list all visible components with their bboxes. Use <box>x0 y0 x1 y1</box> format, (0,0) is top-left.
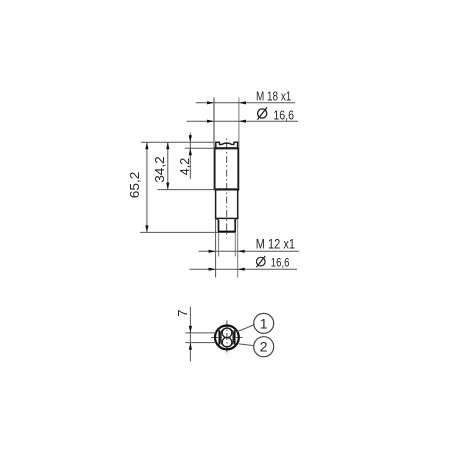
dim line M12 <box>199 250 300 252</box>
right flat chord <box>234 330 236 344</box>
thread chamfer right <box>234 219 237 221</box>
extension line y232.3 (65,2) <box>140 231 218 233</box>
arrow dia bottom left <box>209 268 216 271</box>
dim line 34,2 <box>167 142 169 189</box>
thread bottom thick line <box>218 231 236 233</box>
centerline horizontal (end view) <box>211 336 243 338</box>
svg-text:2: 2 <box>260 339 268 355</box>
dim line 65,2 <box>146 142 148 232</box>
upper body M18 section <box>215 148 239 189</box>
thread M12 section <box>219 220 236 232</box>
arrow M12 right <box>238 250 245 253</box>
dim line 7 <box>189 307 191 362</box>
centerline vertical (end view) <box>226 321 228 356</box>
small circle 2 (bottom) <box>222 337 232 347</box>
svg-text:16,6: 16,6 <box>273 107 294 122</box>
svg-text:M 18 x1: M 18 x1 <box>256 89 291 104</box>
outer circle (thread OD) <box>215 326 239 350</box>
arrow M12 left <box>209 250 216 253</box>
arrow M18 right <box>239 101 246 104</box>
arrow dia bottom right <box>238 268 245 271</box>
extension line top-right <box>238 98 240 149</box>
extension line 7 top <box>185 332 216 334</box>
cap flange thick line <box>214 147 238 149</box>
svg-text:65,2: 65,2 <box>128 172 142 199</box>
diameter symbol bottom <box>257 257 266 266</box>
svg-text:1: 1 <box>260 315 268 331</box>
extension lines bottom outer <box>215 219 217 278</box>
middle section <box>216 189 238 218</box>
svg-text:7: 7 <box>176 309 190 317</box>
extension lines bottom inner (thread) <box>218 233 220 257</box>
sensing cap top profile <box>216 142 238 148</box>
leader line 1 <box>237 325 255 332</box>
extension line y142 left <box>141 141 215 143</box>
extension line y189.5 (34,2) <box>158 189 216 191</box>
step line at 189.4 <box>214 188 239 190</box>
leader line 2 <box>239 344 254 346</box>
arrow dia top right <box>239 120 246 123</box>
callout circle 2 <box>254 337 274 357</box>
svg-text:M 12 x1: M 12 x1 <box>256 237 295 252</box>
dim line dia16,6 bottom <box>190 268 298 270</box>
diameter symbol top <box>258 109 267 118</box>
callout circle 1 <box>254 313 274 333</box>
dim line 4,2 <box>189 133 191 180</box>
dim line dia16,6 top <box>187 120 299 122</box>
arrow dia top left <box>207 120 214 123</box>
inner stadium (slot) <box>221 328 233 347</box>
arrow M18 left <box>207 101 214 104</box>
dim line M18 <box>196 102 295 104</box>
extension line 7 bottom <box>185 342 216 344</box>
extension line y148 (4,2) <box>185 147 215 149</box>
centerline vertical (side view) <box>226 139 228 238</box>
small circle 1 (top) <box>222 328 232 338</box>
svg-text:34,2: 34,2 <box>153 156 167 183</box>
svg-text:16,6: 16,6 <box>271 256 290 270</box>
extension line top-left <box>213 98 215 149</box>
svg-text:4,2: 4,2 <box>178 158 192 176</box>
left flat chord <box>218 330 220 344</box>
thread chamfer left <box>216 219 219 221</box>
